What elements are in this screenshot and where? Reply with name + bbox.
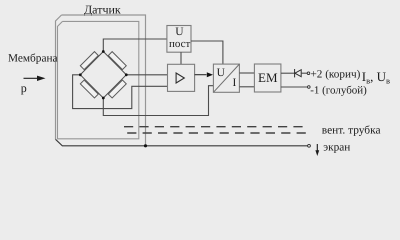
pressure arrow (24, 76, 46, 81)
junction housing corner (144, 144, 147, 147)
bridge node left (79, 73, 82, 76)
bridge node bottom (102, 97, 105, 100)
svg-text:р: р (21, 81, 27, 95)
svg-text:U: U (217, 67, 226, 79)
EM electronics box (254, 64, 281, 92)
wire U post right to U/I top (191, 41, 223, 64)
wire bottom node to U/I converter lower input (103, 86, 213, 116)
strain-gauge bridge diamond wires (80, 52, 126, 99)
vent tube dashed lines (124, 126, 306, 128)
svg-text:Iв, Uв: Iв, Uв (362, 69, 390, 86)
svg-text:-1 (голубой): -1 (голубой) (310, 85, 367, 97)
arrow amplifier to U/I (195, 74, 207, 76)
wire diode to plus terminal (301, 72, 307, 74)
shield terminal circle (308, 144, 311, 147)
op-amp amplifier box (168, 64, 195, 91)
U post supply box (167, 26, 191, 53)
bridge resistor lower-right (108, 80, 126, 98)
sensor inner housing box (58, 21, 139, 138)
minus terminal circle (308, 86, 311, 89)
bridge node top (102, 50, 105, 53)
shield wire from housing corner (56, 139, 308, 146)
U/I converter box (213, 64, 239, 92)
wire left node loop under bridge to amplifier (73, 75, 168, 109)
wire top: bridge top node to U post (103, 39, 167, 52)
svg-text:+2 (корич): +2 (корич) (311, 68, 361, 80)
wire EM to minus terminal (281, 86, 307, 88)
U/I diagonal (213, 64, 239, 92)
svg-text:пост: пост (169, 38, 191, 50)
bridge resistor upper-right (108, 52, 126, 70)
bridge resistor lower-left (80, 80, 98, 98)
svg-text:вент. трубка: вент. трубка (322, 125, 381, 137)
svg-text:Мембрана: Мембрана (8, 52, 58, 64)
sensor outer housing box (56, 15, 146, 146)
wire EM to diode (281, 72, 295, 74)
wire U post bottom to amplifier top (180, 52, 182, 64)
shield down arrow (315, 144, 319, 156)
bridge resistor upper-left (80, 52, 98, 70)
svg-text:экран: экран (323, 142, 350, 154)
plus terminal circle (307, 72, 310, 75)
wires U/I to EM (239, 72, 254, 74)
bridge node right (125, 73, 128, 76)
svg-text:I: I (233, 77, 237, 89)
amplifier triangle symbol (176, 73, 184, 83)
svg-text:U: U (175, 26, 184, 38)
svg-text:ЕМ: ЕМ (258, 70, 278, 85)
wire right node to amplifier (126, 74, 167, 76)
diode symbol (295, 69, 302, 77)
